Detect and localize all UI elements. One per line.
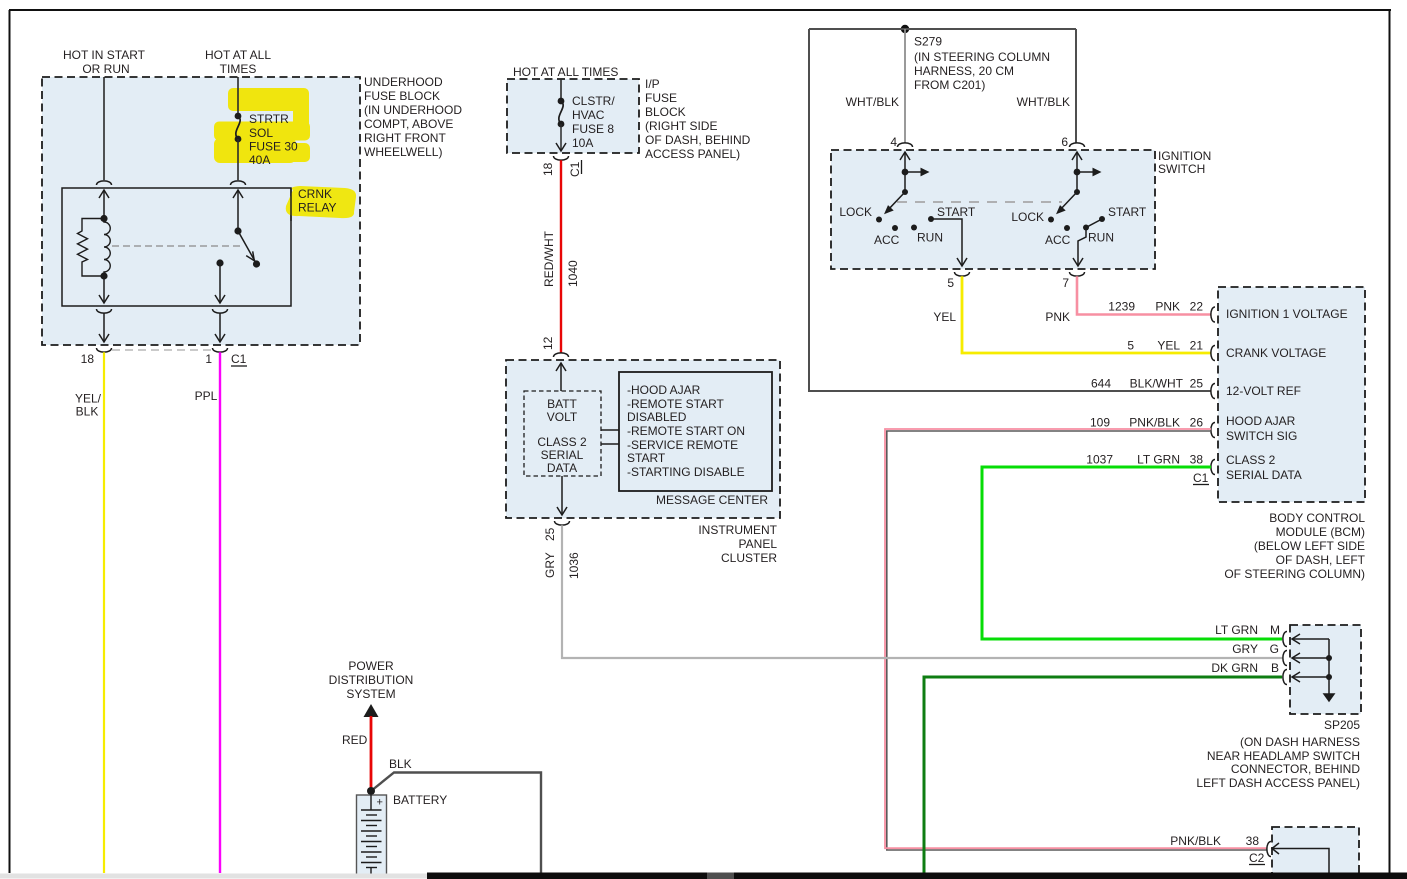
svg-text:-STARTING DISABLE: -STARTING DISABLE [627, 465, 745, 479]
svg-text:DATA: DATA [547, 461, 577, 475]
svg-text:10A: 10A [572, 136, 593, 150]
underhood fuse block box [42, 77, 360, 345]
svg-text:PPL: PPL [195, 389, 218, 403]
wire labels 1037 LT GRN 38 [1086, 453, 1203, 467]
connector C1 label (rotated, underlined) [568, 160, 582, 177]
svg-text:START: START [1108, 205, 1147, 219]
svg-text:BATT: BATT [547, 397, 577, 411]
link lines inner box to message center [601, 430, 619, 444]
svg-text:BLK/WHT: BLK/WHT [1130, 377, 1184, 391]
svg-text:BLOCK: BLOCK [645, 105, 686, 119]
splice pack SP205 box [1290, 625, 1361, 714]
svg-text:OR RUN: OR RUN [82, 62, 129, 76]
right RUN contact [1083, 225, 1089, 231]
svg-text:18: 18 [541, 162, 555, 176]
svg-text:HOT AT ALL TIMES: HOT AT ALL TIMES [513, 65, 618, 79]
wire labels 5 YEL 21 [1127, 339, 1203, 353]
svg-text:CLSTR/: CLSTR/ [572, 94, 615, 108]
svg-text:SYSTEM: SYSTEM [346, 687, 395, 701]
relay contact output point [216, 259, 223, 266]
svg-text:PNK/BLK: PNK/BLK [1170, 834, 1221, 848]
connector arc pin 1 of fuse block [213, 348, 228, 352]
battery plates [361, 791, 382, 874]
highlight over CRNK RELAY [286, 186, 356, 218]
svg-text:BLK: BLK [76, 405, 99, 419]
wire hot-in-start vertical into relay [103, 77, 105, 180]
connector arc pin 12 of cluster [554, 353, 569, 357]
svg-text:LEFT DASH ACCESS PANEL): LEFT DASH ACCESS PANEL) [1196, 776, 1360, 790]
label HOT IN START OR RUN [63, 48, 146, 76]
svg-text:OF DASH, BEHIND: OF DASH, BEHIND [645, 133, 751, 147]
svg-text:1036: 1036 [567, 552, 581, 579]
right ignition branch arrow right [1074, 168, 1102, 177]
svg-text:CLUSTER: CLUSTER [721, 551, 777, 565]
svg-text:RELAY: RELAY [298, 201, 336, 215]
svg-text:1040: 1040 [566, 260, 580, 287]
svg-text:ACC: ACC [1045, 233, 1071, 247]
svg-text:+: + [377, 797, 383, 809]
BCM pin 26 arc [1211, 423, 1215, 438]
BCM pin 38 arc [1211, 460, 1215, 475]
wire labels 644 BLK/WHT 25 [1091, 377, 1203, 391]
svg-text:BATTERY: BATTERY [393, 793, 447, 807]
svg-text:CRNK: CRNK [298, 187, 332, 201]
wire PPL vertical [219, 352, 221, 873]
svg-text:HVAC: HVAC [572, 108, 605, 122]
relay coil output arrow [99, 276, 109, 303]
svg-text:1239: 1239 [1108, 300, 1135, 314]
connector C1 label (BCM) [1193, 471, 1209, 485]
connector arc below relay (right) [213, 309, 228, 313]
svg-text:22: 22 [1190, 300, 1204, 314]
svg-text:B: B [1271, 661, 1279, 675]
svg-text:CLASS 2: CLASS 2 [1226, 453, 1276, 467]
connector C1 label (underhood) [231, 352, 247, 366]
wire WHT/BLK left leg down and around to BCM pin 25 [809, 29, 1211, 391]
wire GRY vertical [561, 525, 563, 659]
right LOCK contact [1048, 217, 1054, 223]
wire labels 1239 PNK 22 [1108, 300, 1203, 314]
svg-text:PNK: PNK [1155, 300, 1180, 314]
SP205 pin G arc [1283, 651, 1287, 666]
bottom window bar light strip [0, 874, 427, 879]
svg-text:FROM C201): FROM C201) [914, 78, 985, 92]
svg-text:WHT/BLK: WHT/BLK [1017, 95, 1070, 109]
label S279 [914, 35, 1050, 93]
SP205 pin G arrow and lead [1292, 653, 1329, 663]
svg-text:26: 26 [1190, 416, 1204, 430]
svg-text:S279: S279 [914, 35, 942, 49]
instrument panel cluster box [506, 360, 780, 518]
cluster input arrow [556, 363, 566, 391]
svg-text:12: 12 [541, 336, 555, 350]
left LOCK contact [876, 217, 882, 223]
label POWER DISTRIBUTION SYSTEM [329, 659, 414, 701]
svg-text:-REMOTE START: -REMOTE START [627, 397, 725, 411]
power distribution arrow (filled) [364, 704, 379, 717]
label CLSTR/HVAC FUSE 8 10A [572, 94, 615, 150]
wire S279 horizontal bar [809, 28, 1076, 30]
wire fuse to relay [237, 139, 239, 180]
svg-text:(IN UNDERHOOD: (IN UNDERHOOD [364, 103, 462, 117]
relay coil input arrow [99, 190, 109, 218]
relay box edge over highlight [290, 188, 292, 221]
left RUN contact [911, 225, 917, 231]
svg-text:DISABLED: DISABLED [627, 410, 687, 424]
svg-text:-SERVICE REMOTE: -SERVICE REMOTE [627, 438, 738, 452]
svg-text:5: 5 [1127, 339, 1134, 353]
left ignition input arrow [900, 152, 910, 192]
I/P fuse block box [507, 79, 639, 153]
svg-text:LOCK: LOCK [1011, 210, 1044, 224]
svg-text:FUSE BLOCK: FUSE BLOCK [364, 89, 440, 103]
wire PNK/BLK pink stripe [885, 429, 1267, 848]
BCM pin names [1226, 307, 1348, 482]
svg-text:WHEELWELL): WHEELWELL) [364, 145, 442, 159]
battery positive junction [367, 787, 375, 795]
svg-text:18: 18 [81, 352, 95, 366]
svg-text:38: 38 [1190, 453, 1204, 467]
svg-text:IGNITION: IGNITION [1158, 149, 1211, 163]
svg-text:25: 25 [543, 527, 557, 541]
right START contact [1099, 216, 1105, 222]
ignition mechanical dashed link [897, 201, 1062, 203]
svg-text:IGNITION 1 VOLTAGE: IGNITION 1 VOLTAGE [1226, 307, 1348, 321]
svg-text:38: 38 [1246, 834, 1260, 848]
svg-text:FUSE 8: FUSE 8 [572, 122, 614, 136]
svg-text:GRY: GRY [1232, 642, 1258, 656]
svg-text:YEL/: YEL/ [75, 392, 102, 406]
svg-text:UNDERHOOD: UNDERHOOD [364, 75, 443, 89]
svg-text:21: 21 [1190, 339, 1204, 353]
cluster output arrow [557, 476, 567, 515]
svg-text:PNK: PNK [1045, 310, 1070, 324]
C2 pin 38 arc [1267, 842, 1271, 857]
label PNK/BLK 38 at C2 [1170, 834, 1259, 848]
svg-text:WHT/BLK: WHT/BLK [846, 95, 899, 109]
svg-text:1: 1 [205, 352, 212, 366]
connector arc pin 18 of fuse block [97, 348, 112, 352]
svg-text:POWER: POWER [348, 659, 394, 673]
wire START to pin 5 with arrow [931, 219, 967, 266]
wire labels 109 PNK/BLK 26 [1090, 416, 1203, 430]
connector arc pin 25 of cluster [555, 521, 570, 525]
svg-text:HOT AT ALL: HOT AT ALL [205, 48, 271, 62]
svg-text:SWITCH SIG: SWITCH SIG [1226, 429, 1297, 443]
connector arc pin 6 [1070, 143, 1085, 147]
svg-text:YEL: YEL [1157, 339, 1180, 353]
svg-text:LT GRN: LT GRN [1215, 623, 1258, 637]
svg-text:G: G [1270, 642, 1279, 656]
svg-text:OF DASH, LEFT: OF DASH, LEFT [1276, 553, 1366, 567]
fuse CLSTR/HVAC FUSE 8 10A [558, 98, 565, 128]
right ignition input arrow [1072, 152, 1082, 192]
BCM pin 22 arc [1211, 307, 1215, 322]
highlight over STRTR SOL FUSE 30 [214, 88, 310, 163]
wire START-RUN to pin 7 with arrow [1073, 219, 1102, 266]
SP205 bus with junction dots and down arrow [1324, 639, 1334, 701]
left ignition wiper pivot [902, 189, 908, 195]
svg-text:-HOOD AJAR: -HOOD AJAR [627, 383, 701, 397]
svg-text:-REMOTE START ON: -REMOTE START ON [627, 424, 745, 438]
wire DK GRN from bottom to SP205 pin B [924, 677, 1282, 873]
relay contact input arrow [233, 190, 243, 231]
left ignition wiper arm to LOCK [884, 192, 905, 214]
svg-text:ACCESS PANEL): ACCESS PANEL) [645, 147, 740, 161]
svg-text:I/P: I/P [645, 77, 660, 91]
svg-text:STRTR: STRTR [249, 112, 289, 126]
svg-text:VOLT: VOLT [547, 410, 578, 424]
wire YEL/BLK vertical [103, 352, 105, 873]
C2 pin 38 arrow and internal lead [1272, 843, 1329, 873]
svg-text:12-VOLT REF: 12-VOLT REF [1226, 384, 1301, 398]
svg-text:START: START [937, 205, 976, 219]
svg-text:RUN: RUN [917, 231, 943, 245]
wire RED/WHT vertical [560, 160, 562, 353]
connector arc pin 4 [898, 143, 913, 147]
message center box [619, 372, 772, 491]
label I/P FUSE BLOCK [645, 77, 751, 161]
label IGNITION SWITCH [1158, 149, 1211, 176]
left START contact [928, 216, 934, 222]
connector arc into relay (left pin) [97, 181, 112, 185]
svg-text:LOCK: LOCK [839, 205, 872, 219]
svg-text:PANEL: PANEL [739, 537, 778, 551]
svg-text:MODULE (BCM): MODULE (BCM) [1276, 525, 1365, 539]
wire PNK/BLK from BCM pin 26 to C2 (dark understripe) [887, 431, 1267, 850]
wire relay to fuse block edge (right) with arrow [215, 314, 225, 343]
ignition switch box [831, 150, 1155, 269]
svg-text:RIGHT FRONT: RIGHT FRONT [364, 131, 446, 145]
svg-text:DISTRIBUTION: DISTRIBUTION [329, 673, 414, 687]
wire LT GRN from BCM pin 38 to SP205 pin M [982, 467, 1282, 639]
svg-text:BLK: BLK [389, 757, 412, 771]
bottom window black bar [427, 873, 1407, 879]
bottom bar scrollbar thumb [707, 873, 734, 879]
SP205 wire labels [1211, 623, 1280, 675]
svg-text:1037: 1037 [1086, 453, 1113, 467]
connector arc into relay (right pin) [231, 181, 246, 185]
splice S279 junction dot [901, 25, 909, 33]
relay K CRNK RELAY box [62, 188, 291, 306]
relay coil bottom junction [100, 272, 107, 279]
svg-text:FUSE: FUSE [645, 91, 677, 105]
svg-text:OF STEERING COLUMN): OF STEERING COLUMN) [1224, 567, 1365, 581]
connector arc pin 7 [1070, 272, 1085, 276]
svg-text:C2: C2 [1249, 851, 1265, 865]
svg-text:7: 7 [1062, 276, 1069, 290]
svg-text:YEL: YEL [933, 310, 956, 324]
svg-text:(IN STEERING COLUMN: (IN STEERING COLUMN [914, 50, 1050, 64]
svg-text:109: 109 [1090, 416, 1110, 430]
svg-text:CLASS 2: CLASS 2 [537, 435, 587, 449]
right ignition wiper arm to LOCK [1056, 192, 1077, 214]
svg-text:(RIGHT SIDE: (RIGHT SIDE [645, 119, 717, 133]
SP205 pin B arc [1283, 670, 1287, 685]
svg-text:DK GRN: DK GRN [1211, 661, 1258, 675]
svg-text:COMPT, ABOVE: COMPT, ABOVE [364, 117, 453, 131]
wire relay to fuse block edge (left) with arrow [99, 314, 109, 343]
SP205 pin M arrow and lead [1292, 634, 1329, 644]
connector C2 label [1249, 851, 1265, 865]
C2 module box (bottom right) [1272, 827, 1359, 879]
relay contact blade [238, 231, 256, 263]
svg-text:6: 6 [1061, 135, 1068, 149]
left ACC contact [892, 225, 898, 231]
svg-text:(BELOW LEFT SIDE: (BELOW LEFT SIDE [1254, 539, 1365, 553]
svg-text:CONNECTOR, BEHIND: CONNECTOR, BEHIND [1231, 762, 1360, 776]
svg-text:PNK/BLK: PNK/BLK [1129, 416, 1180, 430]
wire PNK pin 7 to BCM pin 22 [1077, 276, 1211, 314]
wire WHT/BLK center leg to pin 4 [904, 29, 906, 143]
relay mechanical link (dashed) [112, 245, 240, 247]
svg-text:LT GRN: LT GRN [1137, 453, 1180, 467]
connector arc pin 5 [955, 272, 970, 276]
svg-text:GRY: GRY [543, 552, 557, 578]
svg-text:SP205: SP205 [1324, 718, 1360, 732]
BATT VOLT / CLASS 2 SERIAL DATA inner box [524, 391, 601, 476]
svg-text:644: 644 [1091, 377, 1111, 391]
relay resistor [78, 219, 105, 277]
svg-text:BODY CONTROL: BODY CONTROL [1269, 511, 1365, 525]
svg-text:C1: C1 [568, 161, 582, 177]
svg-text:SERIAL DATA: SERIAL DATA [1226, 468, 1302, 482]
svg-text:RUN: RUN [1088, 231, 1114, 245]
wire YEL pin 5 to BCM pin 21 [962, 276, 1211, 353]
svg-text:M: M [1270, 623, 1280, 637]
wire BLK battery positive loop [371, 773, 541, 874]
svg-text:SWITCH: SWITCH [1158, 162, 1205, 176]
svg-text:SERIAL: SERIAL [541, 448, 584, 462]
right ACC contact [1064, 225, 1070, 231]
connector arc pin 18 of I/P fuse block [554, 156, 569, 160]
connector arc below relay (left) [97, 309, 112, 313]
svg-text:FUSE 30: FUSE 30 [249, 140, 298, 154]
relay contact fixed point [234, 227, 241, 234]
relay coil [104, 219, 110, 277]
relay contact output arrow [215, 263, 225, 303]
label HOT AT ALL TIMES (left) [205, 48, 271, 76]
svg-text:START: START [627, 451, 666, 465]
svg-text:HOT IN START: HOT IN START [63, 48, 146, 62]
right ignition wiper pivot [1074, 189, 1080, 195]
svg-text:C1: C1 [1193, 471, 1209, 485]
right position labels [1011, 205, 1147, 247]
left ignition branch arrow right [902, 168, 930, 177]
label BATT VOLT CLASS 2 SERIAL DATA [537, 397, 587, 475]
label STRTR SOL FUSE 30 40A [249, 112, 298, 167]
left position labels [839, 205, 976, 247]
fuse STRTR SOL FUSE 30 40A [235, 113, 242, 143]
wire RED battery to power distribution [370, 716, 373, 791]
svg-text:HARNESS, 20 CM: HARNESS, 20 CM [914, 64, 1014, 78]
svg-text:RED: RED [342, 733, 368, 747]
label SP205 location [1196, 718, 1360, 790]
SP205 pin M arc [1283, 632, 1287, 647]
wire hot-at-all-times vertical to fuse [237, 77, 239, 116]
wire fuse 8 output with arrow [556, 124, 566, 151]
svg-text:40A: 40A [249, 153, 270, 167]
svg-text:C1: C1 [231, 352, 247, 366]
label INSTRUMENT PANEL CLUSTER [698, 523, 777, 565]
svg-text:TIMES: TIMES [220, 62, 257, 76]
svg-text:SOL: SOL [249, 126, 273, 140]
BCM pin 21 arc [1211, 346, 1215, 361]
wire WHT/BLK right leg to pin 6 [1075, 29, 1077, 143]
svg-text:NEAR HEADLAMP SWITCH: NEAR HEADLAMP SWITCH [1207, 749, 1360, 763]
svg-text:(ON DASH HARNESS: (ON DASH HARNESS [1240, 735, 1360, 749]
relay coil top junction [100, 215, 107, 222]
SP205 pin B arrow and lead [1292, 672, 1329, 682]
svg-text:INSTRUMENT: INSTRUMENT [698, 523, 777, 537]
svg-text:25: 25 [1190, 377, 1204, 391]
battery box [357, 795, 387, 875]
label UNDERHOOD FUSE BLOCK [364, 75, 462, 159]
svg-text:ACC: ACC [874, 233, 900, 247]
wire GRY horizontal to SP205 [561, 657, 1282, 659]
BCM pin 25 arc [1211, 384, 1215, 399]
connector C1 dashed link line [112, 349, 212, 351]
svg-text:MESSAGE CENTER: MESSAGE CENTER [656, 493, 768, 507]
wire into fuse 8 [560, 79, 562, 101]
svg-text:HOOD AJAR: HOOD AJAR [1226, 414, 1296, 428]
label YEL/BLK [75, 392, 102, 419]
svg-text:4: 4 [890, 135, 897, 149]
BCM box [1218, 287, 1365, 502]
BCM location label [1224, 511, 1365, 581]
message center text [627, 383, 745, 479]
svg-text:5: 5 [947, 276, 954, 290]
svg-text:RED/WHT: RED/WHT [542, 230, 556, 287]
svg-text:CRANK VOLTAGE: CRANK VOLTAGE [1226, 346, 1326, 360]
label CRNK RELAY [298, 187, 336, 215]
